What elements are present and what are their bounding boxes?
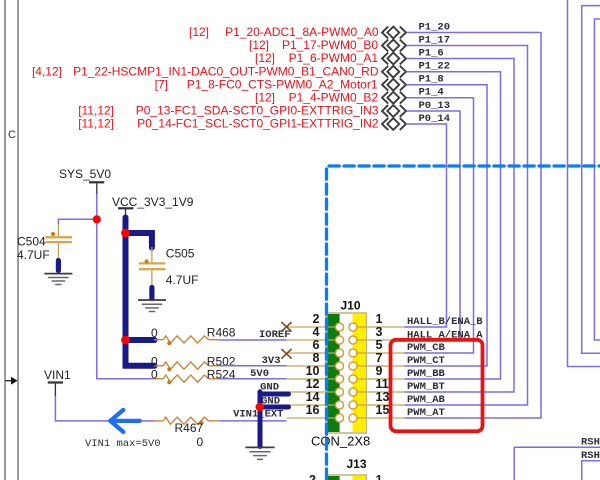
- svg-text:2: 2: [313, 312, 320, 326]
- svg-text:P1_4-PWM0_B2: P1_4-PWM0_B2: [289, 90, 379, 104]
- svg-text:11: 11: [376, 377, 389, 391]
- svg-text:P1_8-FC0_CTS-PWM0_A2_Motor1: P1_8-FC0_CTS-PWM0_A2_Motor1: [187, 77, 378, 91]
- power symbol SYS_5V0: [59, 167, 111, 194]
- off-page connector symbol row 3: [382, 53, 406, 65]
- wire P1_22 to J10 pin 9: [405, 72, 501, 379]
- wire P0_13 to J10 pin 3: [405, 111, 461, 340]
- svg-text:5: 5: [376, 338, 383, 352]
- wire right bus A: [568, 0, 600, 367]
- net name P1_6-PWM0_A1: [255, 51, 378, 65]
- capacitor C505: [139, 247, 166, 299]
- wire P1_6 to J10 pin 11: [405, 59, 515, 393]
- resistor R467 pad dot: [199, 421, 203, 425]
- svg-text:0: 0: [151, 354, 158, 368]
- capacitor C504: [46, 224, 73, 271]
- connector J13 body: [326, 475, 366, 480]
- ground GND bus: [246, 447, 275, 459]
- J10 pin 3 stub: [353, 339, 405, 341]
- svg-text:16: 16: [306, 403, 320, 417]
- svg-text:CON_2X8: CON_2X8: [311, 433, 370, 448]
- wire P1_17 to J10 pin 13: [405, 46, 528, 406]
- svg-text:P0_13: P0_13: [419, 100, 451, 112]
- wire VIN1_EXT: [220, 420, 287, 422]
- svg-text:0: 0: [151, 367, 158, 381]
- svg-text:[12]: [12]: [255, 51, 275, 65]
- svg-text:P1_6: P1_6: [419, 47, 444, 59]
- svg-text:10: 10: [306, 364, 320, 378]
- ground C504: [44, 274, 72, 285]
- J10 pin 14 stub: [287, 404, 340, 406]
- junction VCC/C505: [121, 229, 130, 238]
- svg-text:C504: C504: [17, 235, 46, 249]
- svg-text:[12]: [12]: [189, 25, 209, 39]
- wire P1_20 to J10 pin 15: [405, 33, 542, 419]
- svg-text:C: C: [8, 129, 16, 141]
- svg-text:2: 2: [309, 473, 316, 480]
- no-connect X pin 6: [281, 349, 291, 359]
- J10 pin 2 stub: [287, 326, 340, 328]
- wire 5V0: [220, 378, 287, 380]
- svg-text:R467: R467: [175, 421, 204, 435]
- wire C504 branch: [58, 219, 96, 224]
- svg-text:RSHA: RSHA: [581, 436, 600, 448]
- svg-text:1: 1: [376, 312, 383, 326]
- J10 pin 11 stub: [353, 391, 405, 393]
- ground C505: [138, 300, 166, 312]
- svg-text:[12]: [12]: [249, 38, 269, 52]
- svg-text:P1_17: P1_17: [419, 34, 451, 46]
- partition dashed line horizontal: [329, 164, 600, 167]
- wire P0_14 to J10 pin 1: [405, 124, 447, 327]
- svg-text:PWM_CB: PWM_CB: [407, 342, 446, 354]
- svg-text:J13: J13: [347, 457, 367, 471]
- svg-text:1: 1: [376, 473, 383, 480]
- svg-text:PWM_BT: PWM_BT: [407, 381, 445, 393]
- net name P1_8-FC0_CTS-PWM0_A2_Motor1: [155, 77, 378, 91]
- highlight box PWM nets: [391, 340, 483, 432]
- svg-text:4.7UF: 4.7UF: [166, 273, 199, 287]
- net name P1_17-PWM0_B0: [249, 38, 378, 52]
- svg-text:14: 14: [306, 390, 320, 404]
- svg-text:P1_22-HSCMP1_IN1-DAC0_OUT-PWM0: P1_22-HSCMP1_IN1-DAC0_OUT-PWM0_B1_CAN0_R…: [73, 64, 379, 78]
- junction VCC/R468: [121, 336, 130, 345]
- J10 pin 4 stub: [287, 339, 340, 341]
- J10 pin 6 stub: [287, 352, 340, 354]
- frame border line left: [4, 0, 6, 480]
- J10 pin 7 stub: [353, 365, 405, 367]
- J10 pin 12 stub: [287, 391, 340, 393]
- svg-text:P1_22: P1_22: [419, 61, 451, 73]
- svg-text:PWM_BB: PWM_BB: [407, 368, 446, 380]
- net name P1_22-HSCMP1_IN1-DAC0_OUT-PWM0_B1_CAN0_RD: [32, 64, 379, 78]
- net name P0_14-FC1_SCL-SCT0_GPI1-EXTTRIG_IN2: [78, 117, 379, 131]
- power symbol VIN1: [44, 368, 71, 396]
- junction GND: [255, 403, 264, 412]
- svg-text:13: 13: [376, 390, 390, 404]
- off-page connector symbol row 2: [382, 40, 406, 52]
- svg-text:3V3: 3V3: [262, 355, 281, 367]
- svg-text:8: 8: [313, 351, 320, 365]
- svg-text:0: 0: [197, 435, 204, 449]
- svg-text:HALL_B/ENA_B: HALL_B/ENA_B: [407, 316, 483, 328]
- wire P1_8 to J10 pin 7: [405, 85, 488, 366]
- svg-text:VCC_3V3_1V9: VCC_3V3_1V9: [112, 195, 194, 209]
- svg-text:P1_6-PWM0_A1: P1_6-PWM0_A1: [289, 51, 379, 65]
- svg-text:VIN1 max=5V0: VIN1 max=5V0: [85, 438, 161, 450]
- svg-text:15: 15: [376, 403, 390, 417]
- svg-text:0: 0: [151, 326, 158, 340]
- J10 pin holes right column: [349, 323, 357, 422]
- svg-text:P0_14-FC1_SCL-SCT0_GPI1-EXTTRI: P0_14-FC1_SCL-SCT0_GPI1-EXTTRIG_IN2: [137, 117, 379, 131]
- svg-text:6: 6: [313, 338, 320, 352]
- J10 pin 10 stub: [287, 378, 340, 380]
- wire RSHA: [514, 447, 600, 480]
- svg-text:P1_20: P1_20: [419, 21, 451, 33]
- junction SYS_5V0/C504: [93, 215, 101, 223]
- wire R467 left: [140, 420, 154, 422]
- svg-text:C505: C505: [166, 247, 195, 261]
- svg-text:J10: J10: [341, 299, 361, 313]
- svg-text:P1_4: P1_4: [419, 87, 444, 99]
- wire right bus B: [582, 6, 600, 354]
- svg-text:[12]: [12]: [255, 90, 275, 104]
- net name P0_13-FC1_SDA-SCT0_GPI0-EXTTRIG_IN3: [78, 104, 379, 118]
- J10 pin 9 stub: [353, 378, 405, 380]
- J10 pin 8 stub: [287, 365, 340, 367]
- svg-text:R468: R468: [207, 326, 236, 340]
- off-page connector symbol row 1: [382, 27, 406, 39]
- svg-text:PWM_AB: PWM_AB: [407, 394, 446, 406]
- wire IOREF: [220, 339, 287, 341]
- J10 pin 16 stub: [287, 417, 340, 419]
- net name P1_4-PWM0_B2: [255, 90, 378, 104]
- J10 pin holes left column: [335, 323, 343, 422]
- svg-text:4: 4: [313, 325, 320, 339]
- wire SYS_5V0 vertical: [97, 194, 154, 379]
- wire right bus C: [594, 19, 600, 340]
- connector J10 body: [326, 313, 366, 433]
- svg-text:12: 12: [306, 377, 320, 391]
- frame border line right: [17, 0, 19, 480]
- wire P1_4 to J10 pin 5: [405, 98, 474, 353]
- off-page connector symbol row 8: [382, 118, 406, 130]
- partition dashed line vertical: [325, 169, 328, 480]
- resistor R468: [154, 336, 220, 345]
- J10 pin 1 stub: [353, 326, 405, 328]
- net name P1_20-ADC1_8A-PWM0_A0: [189, 25, 379, 39]
- off-page connector symbol row 5: [382, 79, 406, 91]
- svg-text:IOREF: IOREF: [259, 329, 291, 341]
- svg-text:P1_8: P1_8: [419, 74, 444, 86]
- wire navy branch to C505: [126, 233, 152, 248]
- svg-text:P1_20-ADC1_8A-PWM0_A0: P1_20-ADC1_8A-PWM0_A0: [225, 25, 379, 39]
- frame edge arrow marker: [6, 377, 18, 385]
- svg-text:P0_13-FC1_SDA-SCT0_GPI0-EXTTRI: P0_13-FC1_SDA-SCT0_GPI0-EXTTRIG_IN3: [136, 104, 379, 118]
- resistor R524: [154, 375, 220, 384]
- svg-text:[11,12]: [11,12]: [78, 117, 114, 131]
- svg-text:P1_17-PWM0_B0: P1_17-PWM0_B0: [282, 38, 378, 52]
- power symbol VCC_3V3_1V9: [112, 195, 194, 218]
- J10 pin 5 stub: [353, 352, 405, 354]
- J10 pin 13 stub: [353, 404, 405, 406]
- svg-text:VIN1: VIN1: [44, 368, 71, 382]
- svg-text:5V0: 5V0: [250, 368, 269, 380]
- wire RSHB: [582, 461, 600, 480]
- wire VIN1: [55, 396, 110, 421]
- svg-text:[11,12]: [11,12]: [78, 104, 114, 118]
- no-connect X pin 2: [281, 322, 291, 332]
- svg-text:PWM_AT: PWM_AT: [407, 407, 445, 419]
- wire VCC_3V3 navy vertical: [126, 218, 155, 366]
- svg-text:9: 9: [376, 364, 383, 378]
- off-page connector symbol row 4: [382, 66, 406, 78]
- resistor R502: [154, 362, 220, 371]
- off-page connector symbol row 7: [382, 105, 406, 117]
- J10 pin 15 stub: [353, 417, 405, 419]
- svg-text:3: 3: [376, 325, 383, 339]
- off-page connector symbol row 6: [382, 92, 406, 104]
- current flow arrow: [110, 410, 140, 432]
- wire navy branch to R468: [126, 337, 155, 343]
- svg-text:RSHB: RSHB: [581, 450, 600, 462]
- svg-text:7: 7: [376, 351, 383, 365]
- svg-text:[4,12]: [4,12]: [32, 64, 62, 78]
- svg-text:PWM_CT: PWM_CT: [407, 355, 445, 367]
- resistor R467: [154, 417, 220, 424]
- svg-text:SYS_5V0: SYS_5V0: [59, 167, 111, 181]
- svg-text:P0_14: P0_14: [419, 113, 451, 125]
- wire GND bus navy: [260, 392, 289, 447]
- svg-text:4.7UF: 4.7UF: [17, 248, 50, 262]
- wire 3V3: [220, 365, 287, 367]
- svg-text:[7]: [7]: [155, 77, 168, 91]
